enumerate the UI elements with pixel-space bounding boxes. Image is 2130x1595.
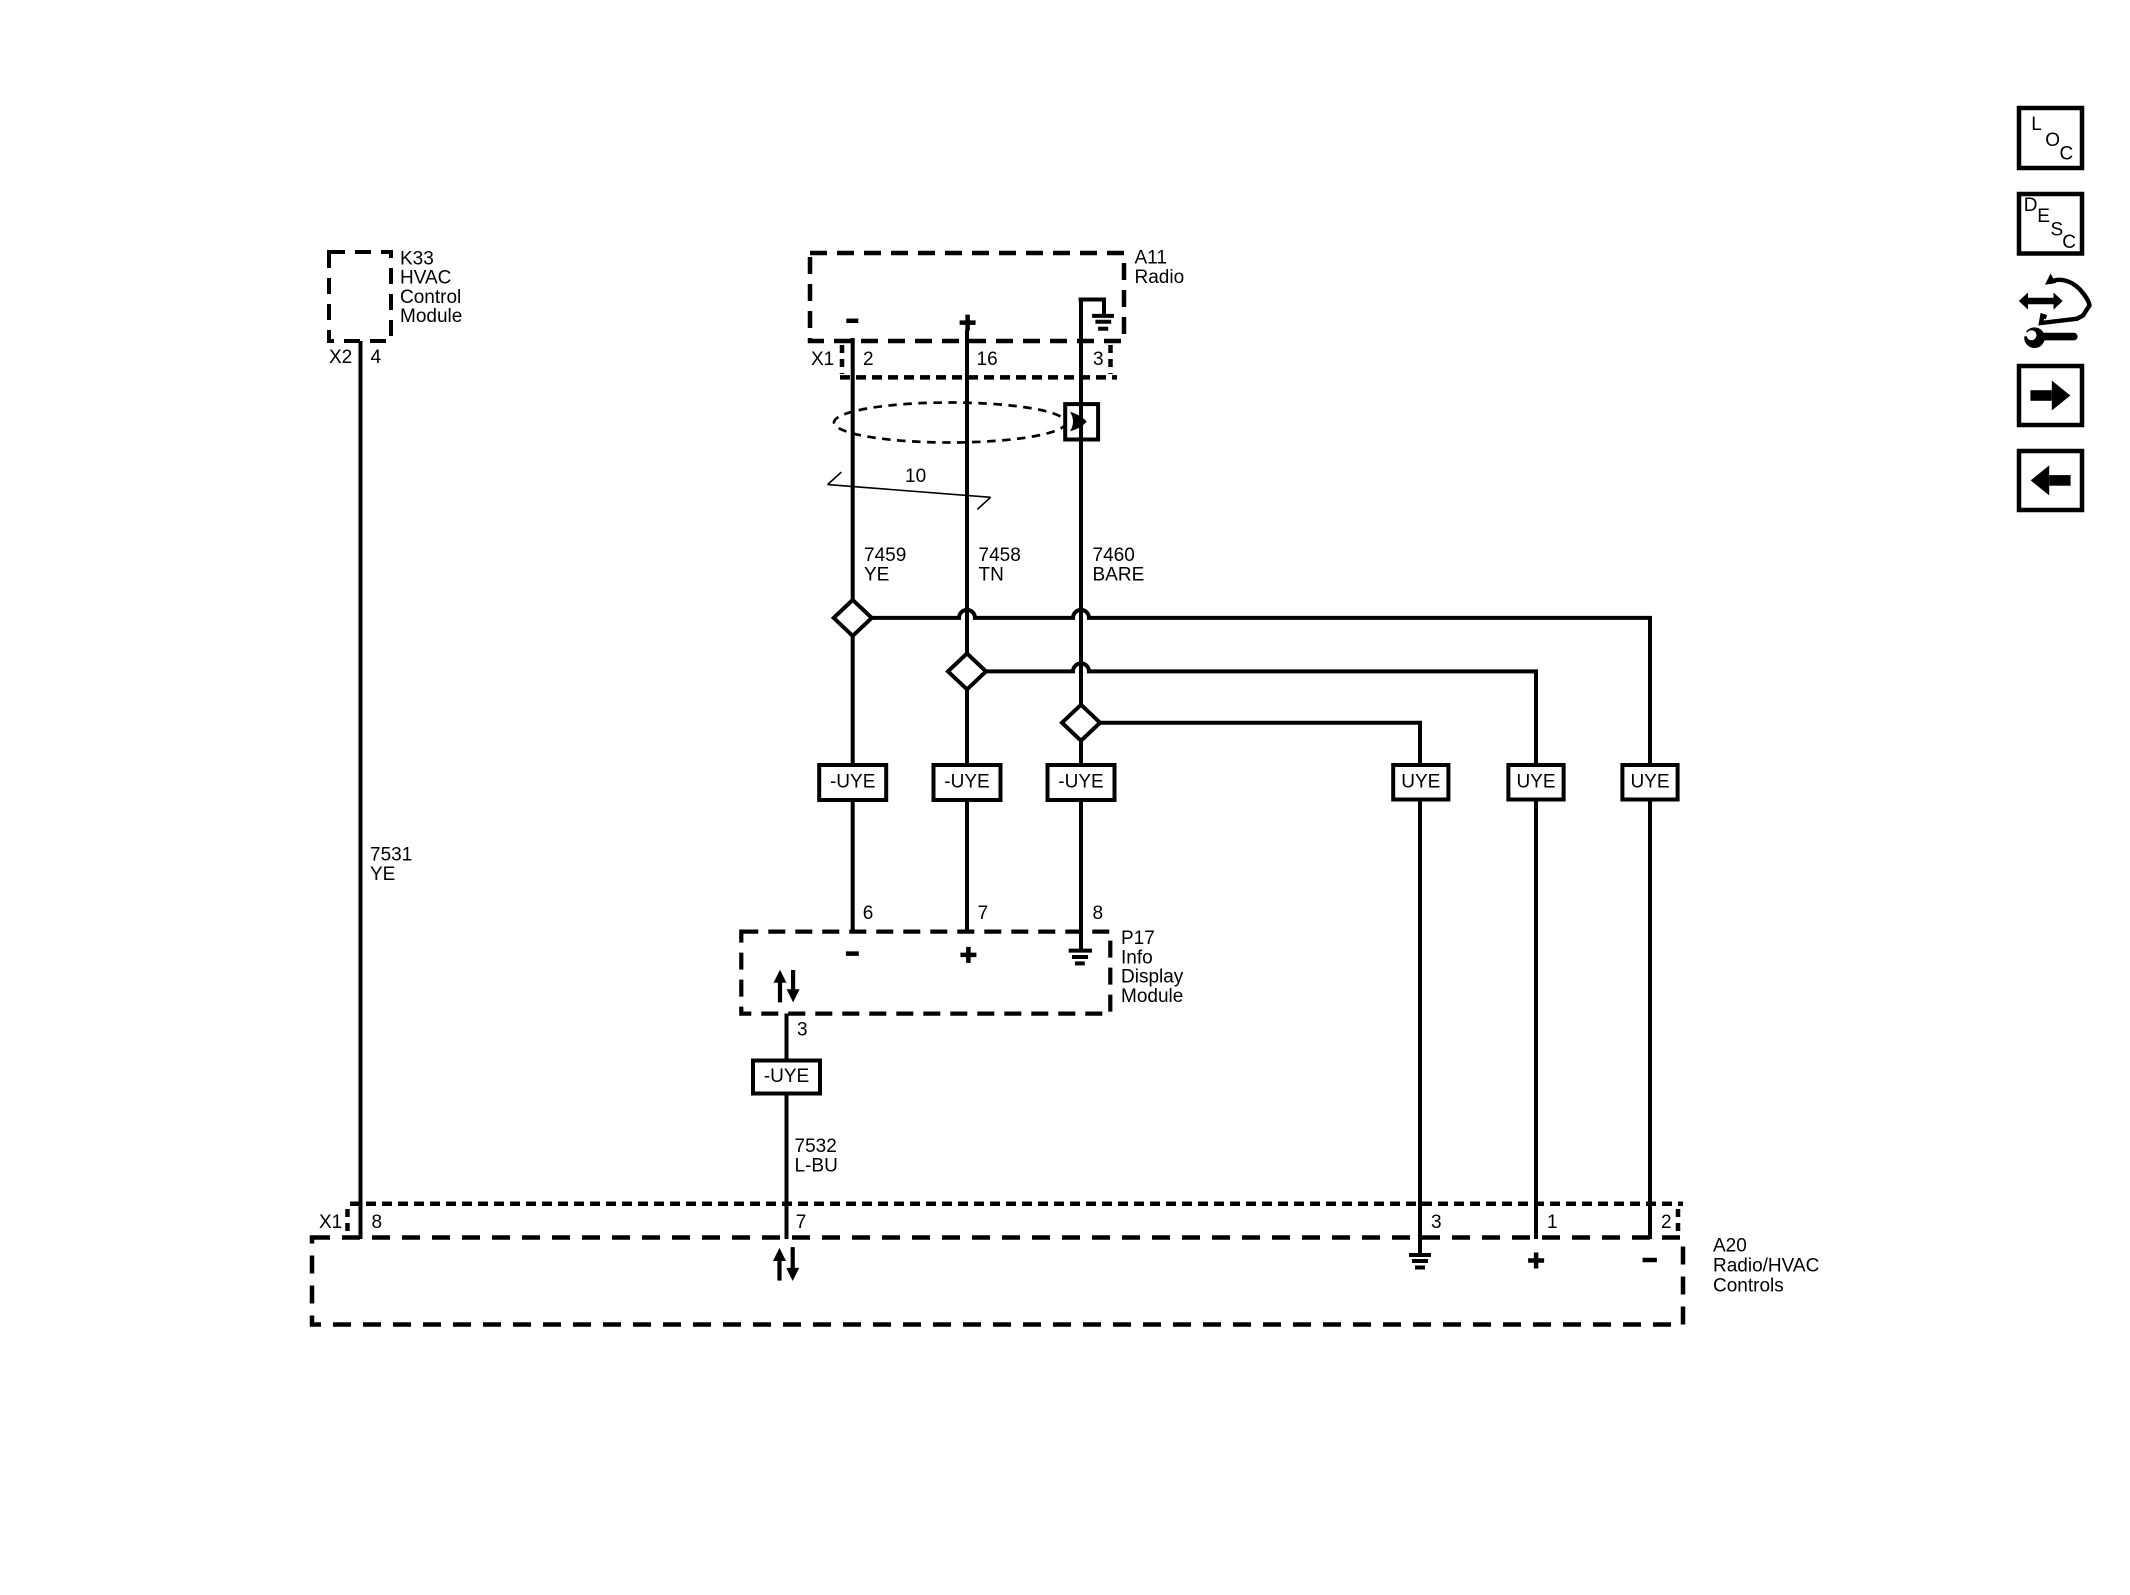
serial data arrows inside A20 (down) [786, 1247, 799, 1281]
harness code box -UYE on 7458 [934, 765, 1001, 800]
svg-text:D: D [2024, 195, 2038, 216]
branch wire from UYE down to A20 pin 2 [1648, 800, 1652, 1240]
branch wire from 7460 splice to A20 pin 3 [1100, 723, 1420, 766]
svg-text:4: 4 [371, 347, 382, 368]
branch wire from UYE down to A20 pin 3 [1418, 800, 1422, 1240]
svg-text:UYE: UYE [1516, 772, 1555, 793]
svg-text:HVAC: HVAC [400, 268, 451, 289]
svg-text:2: 2 [863, 349, 874, 370]
svg-text:7532: 7532 [795, 1136, 837, 1157]
svg-text:YE: YE [370, 864, 395, 885]
toolbar icon jump-to-harness (double arrow, branch outline, wrench) [2019, 274, 2090, 349]
svg-text:-UYE: -UYE [944, 772, 989, 793]
svg-text:C: C [2062, 232, 2076, 253]
svg-text:K33: K33 [400, 249, 434, 270]
svg-text:Controls: Controls [1713, 1275, 1784, 1296]
wire 7458 below splice to -UYE [965, 689, 969, 766]
wire 7532 from P17 pin 3 to -UYE [785, 1014, 789, 1062]
svg-text:E: E [2037, 206, 2050, 227]
wire 7458 TN from A11 X1-16 down to splice [965, 330, 969, 654]
serial data arrows inside P17 (down) [787, 970, 800, 1002]
svg-text:3: 3 [1431, 1212, 1442, 1233]
wire 7459 YE from A11 X1-2 down to splice [851, 338, 855, 601]
svg-text:3: 3 [1093, 349, 1104, 370]
ground symbol inside P17 at pin 8 [1069, 933, 1092, 963]
svg-text:Radio/HVAC: Radio/HVAC [1713, 1255, 1819, 1276]
A20 connector strip X1 (dotted) [319, 1204, 1683, 1233]
svg-text:7458: 7458 [979, 545, 1021, 566]
svg-text:8: 8 [1093, 903, 1104, 924]
svg-text:P17: P17 [1121, 928, 1155, 949]
wire 7460 BARE from A11 X1-3 down to splice [1079, 298, 1083, 706]
harness code box UYE on branch to A20 pin 1 [1508, 765, 1563, 800]
svg-text:6: 6 [863, 903, 874, 924]
svg-text:X1: X1 [811, 349, 834, 370]
shield drain arrow inside termination box [1070, 412, 1087, 432]
svg-text:1: 1 [1547, 1212, 1558, 1233]
svg-text:A11: A11 [1135, 248, 1167, 269]
serial data arrows inside P17 (up) [774, 970, 787, 1003]
svg-text:L: L [2031, 114, 2042, 135]
branch wire from 7459 splice to A20 pin 2 (with hops) [872, 610, 1650, 766]
svg-text:L-BU: L-BU [795, 1155, 838, 1176]
svg-text:X1: X1 [319, 1212, 342, 1233]
svg-text:Module: Module [400, 306, 462, 327]
splice diamond on 7459 [834, 600, 872, 636]
svg-text:7: 7 [796, 1212, 807, 1233]
harness code box -UYE on 7532 [753, 1061, 820, 1094]
splice diamond on 7460 [1062, 705, 1100, 741]
svg-text:C: C [2060, 143, 2074, 164]
svg-text:Radio: Radio [1135, 267, 1185, 288]
K33 connector label X2 pin 4 [329, 347, 382, 368]
module A11 Radio (dashed box) [810, 248, 1184, 342]
svg-text:Info: Info [1121, 947, 1153, 968]
wire label 7531 YE [370, 845, 412, 885]
svg-text:7: 7 [978, 903, 989, 924]
svg-text:UYE: UYE [1630, 772, 1669, 793]
branch wire from UYE down to A20 pin 1 [1534, 800, 1538, 1240]
wire label 7459 YE [864, 545, 906, 585]
svg-text:O: O [2045, 130, 2060, 151]
toolbar icon next (right arrow) [2019, 366, 2082, 425]
module A20 Radio/HVAC Controls (dashed box) [312, 1236, 1819, 1325]
toolbar icon DESC [2019, 194, 2082, 254]
svg-text:3: 3 [797, 1020, 808, 1041]
wire 7459 below splice to -UYE [851, 636, 855, 766]
minus polarity mark inside A11 [846, 319, 858, 324]
svg-text:10: 10 [905, 466, 926, 487]
svg-text:16: 16 [977, 349, 998, 370]
svg-text:-UYE: -UYE [1058, 772, 1103, 793]
svg-text:Display: Display [1121, 967, 1184, 988]
svg-text:A20: A20 [1713, 1236, 1747, 1257]
wire 7459 from -UYE to P17 pin 6 [851, 800, 855, 933]
wire 7460 from -UYE to P17 pin 8 [1079, 800, 1083, 933]
harness code box -UYE on 7460 [1048, 765, 1115, 800]
svg-text:2: 2 [1661, 1212, 1672, 1233]
splice diamond on 7458 [948, 653, 986, 689]
svg-text:8: 8 [372, 1212, 383, 1233]
svg-text:BARE: BARE [1093, 564, 1145, 585]
svg-text:YE: YE [864, 564, 889, 585]
wire label 7460 BARE [1093, 545, 1145, 585]
svg-text:-UYE: -UYE [830, 772, 875, 793]
svg-text:UYE: UYE [1401, 772, 1440, 793]
harness code box UYE on branch to A20 pin 3 [1393, 765, 1448, 800]
wire 7531 YE from K33 X2-4 to A20 X1-8 [359, 341, 363, 1239]
harness code box -UYE on 7459 [819, 765, 886, 800]
svg-text:7460: 7460 [1093, 545, 1135, 566]
shield drain termination box on 7460 [1065, 404, 1098, 439]
svg-text:7459: 7459 [864, 545, 906, 566]
svg-text:TN: TN [979, 564, 1004, 585]
wire 7460 below splice to -UYE [1079, 741, 1083, 766]
minus polarity mark inside A20 at pin 2 [1643, 1258, 1657, 1263]
svg-text:-UYE: -UYE [764, 1066, 809, 1087]
wire 7532 from -UYE to A20 pin 7 [785, 1094, 789, 1240]
serial data arrows inside A20 (up) [773, 1248, 786, 1281]
wire label 7532 L-BU [795, 1136, 838, 1176]
twisted/shielded cable ellipse (dashed) [834, 403, 1066, 443]
A11 connector strip X1 (dotted) [811, 345, 1117, 377]
ground symbol inside A20 at pin 3 [1409, 1239, 1431, 1268]
svg-text:7531: 7531 [370, 845, 412, 866]
svg-text:Control: Control [400, 287, 461, 308]
harness code box UYE on branch to A20 pin 2 [1622, 765, 1677, 800]
svg-text:Module: Module [1121, 986, 1183, 1007]
wire label 7458 TN [979, 545, 1021, 585]
module K33 HVAC Control Module (dashed box) [329, 249, 462, 342]
twisted-pair note leader line with number 10 [828, 466, 991, 510]
branch wire from 7458 splice to A20 pin 1 (with hop) [986, 663, 1536, 766]
plus polarity mark inside A11 [960, 315, 976, 331]
svg-text:X2: X2 [329, 347, 352, 368]
module P17 Info Display Module (dashed box) [741, 928, 1183, 1014]
wire 7458 from -UYE to P17 pin 7 [965, 800, 969, 933]
ground symbol inside A11 at pin 3 [1079, 298, 1114, 329]
toolbar icon back (left arrow) [2019, 451, 2082, 510]
minus polarity mark inside P17 at pin 6 [846, 951, 859, 956]
plus polarity mark inside P17 at pin 7 [960, 947, 976, 963]
toolbar icon LOC [2019, 108, 2082, 168]
plus polarity mark inside A20 at pin 1 [1528, 1253, 1544, 1269]
